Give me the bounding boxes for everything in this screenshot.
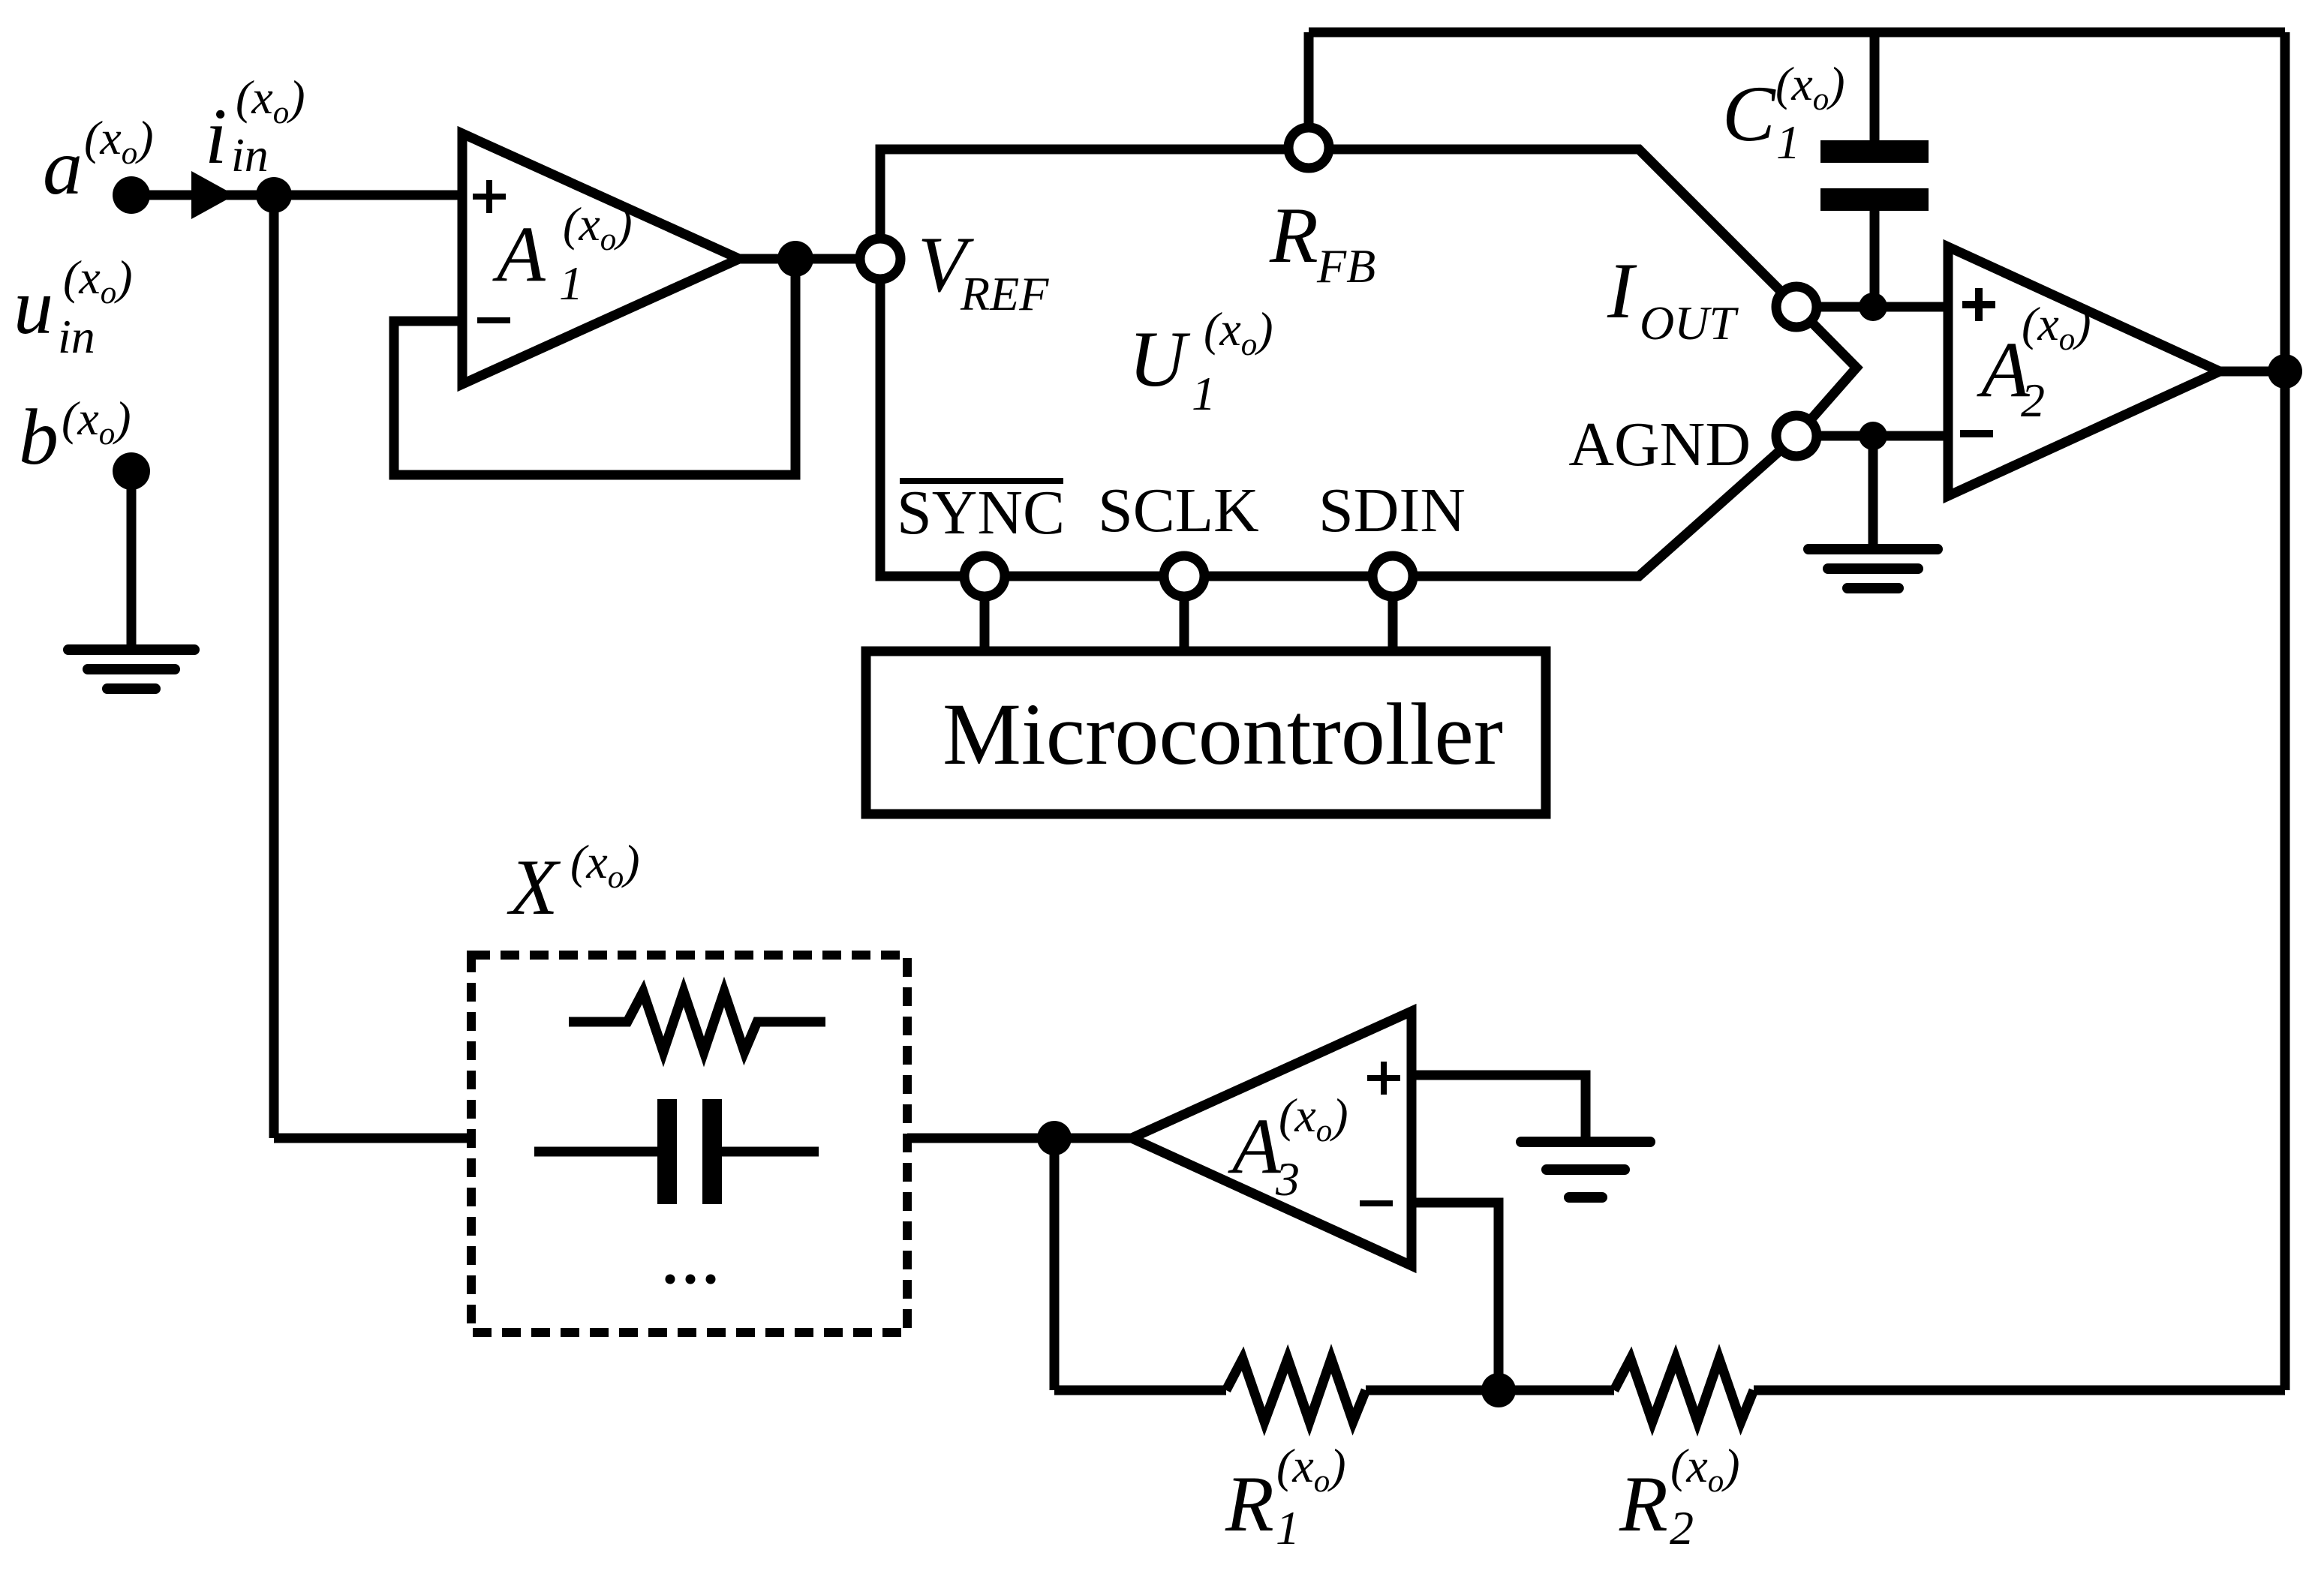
svg-text:(xo): (xo) [1670, 1439, 1740, 1499]
svg-text:SCLK: SCLK [1098, 476, 1259, 545]
overline of SYNC [900, 478, 1063, 484]
capacitor C1 top lead [1870, 32, 1880, 140]
plus sign A1 [473, 180, 506, 213]
pin SDIN circle [1372, 556, 1413, 596]
svg-text:R: R [1269, 191, 1318, 279]
op-amp A2 triangle [1948, 247, 2220, 496]
svg-text:b: b [19, 393, 59, 481]
capacitor inside X box leads [534, 1147, 819, 1157]
node junction A1 output [777, 241, 813, 277]
op-amp A1 triangle [462, 134, 739, 384]
resistor inside X box [569, 992, 825, 1052]
wire A1 output to VREF pin [739, 254, 863, 264]
svg-text:(xo): (xo) [236, 71, 305, 131]
pin RFB circle [1288, 128, 1329, 168]
plus sign A2 [1962, 288, 1995, 321]
pin SYNC circle [964, 556, 1005, 596]
wire A3 node down to R1 row [1050, 1138, 1060, 1390]
resistor R1 zigzag [1226, 1359, 1366, 1422]
dashed box X impedance [471, 955, 907, 1332]
svg-text:(xo): (xo) [84, 111, 154, 171]
svg-text:i: i [205, 92, 227, 180]
svg-text:in: in [231, 128, 269, 182]
svg-text:2: 2 [2021, 374, 2045, 427]
pin IOUT circle [1776, 287, 1817, 327]
wire IOUT to A2 plus [1796, 302, 1948, 312]
svg-text:(xo): (xo) [570, 835, 640, 895]
svg-text:Microcontroller: Microcontroller [943, 685, 1503, 783]
wire b terminal to ground [127, 471, 137, 647]
svg-text:a: a [43, 123, 83, 211]
wire SDIN stub to MCU [1388, 595, 1398, 651]
resistor R2 zigzag [1614, 1359, 1754, 1422]
ellipsis dots inside X box [666, 1275, 675, 1284]
svg-text:SDIN: SDIN [1318, 476, 1466, 545]
svg-text:1: 1 [1276, 1501, 1300, 1554]
svg-text:U: U [1129, 315, 1191, 403]
svg-text:(xo): (xo) [1276, 1439, 1346, 1499]
svg-text:(xo): (xo) [563, 197, 633, 257]
minus sign A1 [477, 317, 510, 323]
node junction C1/IOUT [1859, 293, 1887, 321]
svg-text:(xo): (xo) [1279, 1089, 1348, 1149]
capacitor plates inside X box [657, 1099, 677, 1204]
capacitor C1 plates [1820, 140, 1929, 163]
svg-text:X: X [507, 843, 561, 931]
wire SCLK stub to MCU [1180, 595, 1189, 651]
ground under b terminal [68, 650, 194, 689]
microcontroller box [866, 651, 1546, 814]
op-amp A3 triangle (points left) [1132, 1011, 1412, 1266]
svg-text:1: 1 [1776, 116, 1800, 169]
wire A2 output to right rail [2220, 367, 2285, 377]
wire R1 left lead [1054, 1386, 1226, 1395]
minus sign A2 [1960, 430, 1993, 437]
pin VREF circle [860, 239, 900, 279]
wire to X box left edge [274, 1134, 471, 1143]
svg-text:FB: FB [1316, 239, 1375, 293]
pin AGND circle [1776, 416, 1817, 456]
svg-text:1: 1 [1192, 367, 1216, 420]
svg-text:I: I [1607, 247, 1637, 335]
svg-text:(xo): (xo) [1775, 57, 1845, 117]
pin SCLK circle [1164, 556, 1204, 596]
node junction A2 output [2268, 354, 2302, 389]
wire right rail down to R2 row [2280, 32, 2290, 1390]
svg-text:3: 3 [1275, 1152, 1300, 1206]
svg-text:u: u [14, 263, 53, 350]
svg-text:1: 1 [559, 257, 583, 310]
wire AGND to A2 minus [1796, 431, 1948, 441]
wire SYNC stub to MCU [980, 595, 990, 651]
node junction iin [256, 177, 292, 213]
minus sign A3 [1360, 1200, 1393, 1206]
arrow head on input current [191, 171, 235, 219]
capacitor C1 bottom lead [1870, 211, 1880, 307]
node a terminal dot [113, 176, 150, 214]
svg-text:SYNC: SYNC [897, 478, 1065, 548]
wire junction vertical down to X box row [269, 195, 279, 1138]
svg-text:REF: REF [960, 267, 1049, 320]
wire top rail [1309, 28, 2285, 38]
wire A1 feedback loop (minus input to output) [394, 259, 795, 475]
wire X box output to A3 node [907, 1134, 1132, 1143]
wire input a to A1+ [131, 191, 462, 200]
svg-text:(xo): (xo) [2022, 297, 2091, 357]
plus sign A3 [1367, 1062, 1400, 1095]
svg-text:(xo): (xo) [62, 392, 131, 452]
svg-text:R: R [1619, 1460, 1668, 1548]
svg-text:A: A [492, 210, 546, 298]
wire AGND junction to ground [1869, 436, 1878, 545]
wire R2 to right rail [1754, 1386, 2285, 1395]
node junction R1/R2 [1481, 1373, 1516, 1407]
node junction X output / A3 [1037, 1121, 1072, 1155]
svg-text:2: 2 [1670, 1501, 1694, 1554]
svg-text:C: C [1722, 70, 1776, 158]
op-amp U1 DAC outline [880, 149, 1856, 576]
wire R1 to R2 [1366, 1386, 1614, 1395]
node b terminal dot [113, 452, 150, 490]
svg-text:OUT: OUT [1640, 296, 1739, 350]
wire A3 plus input to ground [1412, 1075, 1586, 1137]
ground at A3 plus [1521, 1142, 1650, 1197]
svg-text:AGND: AGND [1568, 410, 1751, 479]
wire RFB stub to top rail [1304, 32, 1314, 149]
ground under AGND [1808, 549, 1938, 588]
svg-text:(xo): (xo) [63, 251, 133, 311]
svg-text:in: in [58, 310, 95, 363]
svg-text:R: R [1225, 1460, 1274, 1548]
node junction AGND/ground [1859, 422, 1887, 450]
svg-text:A: A [1228, 1102, 1282, 1190]
svg-text:(xo): (xo) [1204, 302, 1273, 362]
wire A3 minus input down to R1 node [1412, 1203, 1499, 1390]
